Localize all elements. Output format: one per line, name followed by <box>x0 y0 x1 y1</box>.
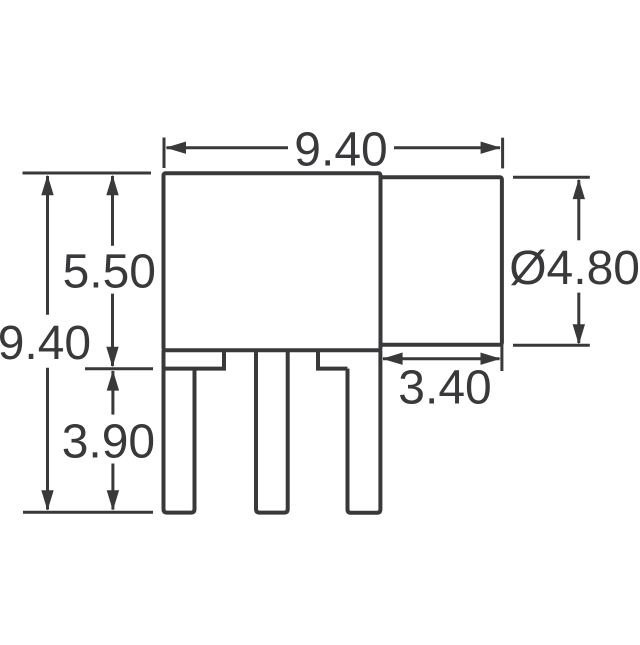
dimension line 3.90 upper segment <box>111 371 114 415</box>
arrowhead left 9.40 up <box>41 175 53 195</box>
extension line top-left <box>23 172 152 175</box>
dimension line top 9.40 left segment <box>167 146 289 149</box>
extension tick right (top 9.40 dim) <box>501 138 504 169</box>
arrowhead 5.50 down <box>106 347 118 367</box>
dimension line diameter upper segment <box>577 180 580 240</box>
right pin shoulder <box>318 350 348 368</box>
left pin shoulder <box>164 350 225 368</box>
dimension line top 9.40 right segment <box>394 146 500 149</box>
dimension line left 9.40 lower segment <box>46 368 49 510</box>
arrowhead 3.90 down <box>107 490 119 510</box>
arrowhead 3.40 left <box>382 353 402 365</box>
extension line diameter top <box>513 176 590 179</box>
left pin <box>164 350 195 512</box>
dimension line diameter lower segment <box>577 293 580 343</box>
svg-text:3.90: 3.90 <box>62 416 155 469</box>
extension line 3.40 right <box>500 345 503 371</box>
svg-text:9.40: 9.40 <box>0 317 91 370</box>
extension tick left (top 9.40 dim) <box>163 138 166 169</box>
svg-text:5.50: 5.50 <box>63 246 156 299</box>
svg-text:Ø4.80: Ø4.80 <box>509 242 640 295</box>
extension line diameter bottom <box>513 344 590 347</box>
extension line middle-left <box>85 367 153 370</box>
extension line bottom-left <box>23 511 153 514</box>
arrowhead 5.50 up <box>106 175 118 195</box>
dimension line 3.40 <box>383 357 500 360</box>
svg-text:3.40: 3.40 <box>398 362 491 415</box>
body outline (main rectangle) <box>164 173 381 350</box>
dimension line 5.50 upper segment <box>111 176 114 246</box>
arrowhead left 9.40 down <box>41 490 53 510</box>
dimension line left 9.40 upper segment <box>46 176 49 315</box>
arrowhead diameter up <box>573 179 585 199</box>
svg-text:9.40: 9.40 <box>294 123 387 176</box>
arrowhead 3.40 right <box>481 353 501 365</box>
arrowhead 3.90 up <box>107 370 119 390</box>
arrowhead diameter down <box>573 324 585 344</box>
dimension line 5.50 lower segment <box>111 294 114 366</box>
shaft outline (right rectangle) <box>381 177 502 345</box>
dimension line 3.90 lower segment <box>111 464 114 510</box>
arrowhead top 9.40 left <box>166 142 186 154</box>
middle pin <box>256 350 288 512</box>
right pin <box>348 350 381 513</box>
arrowhead top 9.40 right <box>481 142 501 154</box>
